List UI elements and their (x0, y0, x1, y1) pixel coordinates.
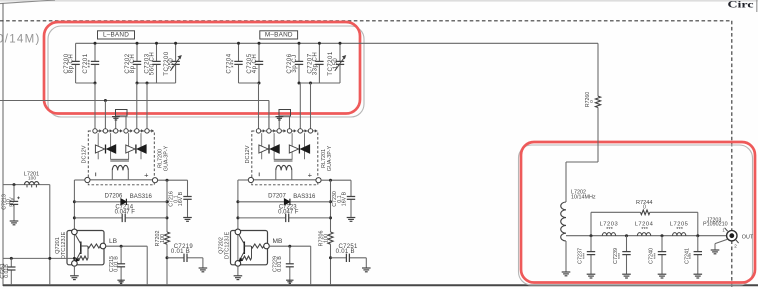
svg-text:+: + (308, 170, 313, 179)
svg-text:OUT: OUT (742, 234, 754, 240)
svg-text:D7207: D7207 (268, 193, 286, 199)
svg-text:8p CH: 8p CH (68, 54, 75, 74)
svg-text:0.01 B: 0.01 B (114, 256, 120, 272)
svg-text:M–BAND: M–BAND (265, 32, 293, 39)
svg-text:100: 100 (323, 234, 329, 243)
svg-text:33p CH: 33p CH (311, 52, 318, 75)
svg-text:DC12V: DC12V (81, 145, 87, 163)
svg-text:***: *** (641, 227, 649, 233)
svg-text:150: 150 (332, 58, 339, 70)
svg-text:0/14M): 0/14M) (0, 33, 41, 45)
svg-text:0: 0 (643, 204, 646, 210)
svg-text:4p CH: 4p CH (251, 54, 258, 74)
svg-text:8p CH: 8p CH (129, 54, 136, 74)
svg-text:0.047 F: 0.047 F (278, 210, 299, 216)
svg-text:100: 100 (28, 176, 36, 182)
svg-text:10/14MHz: 10/14MHz (571, 195, 596, 201)
svg-text:2: 2 (734, 243, 737, 248)
svg-text:MB: MB (273, 238, 283, 245)
svg-text:***: *** (676, 227, 684, 233)
svg-text:0.047 F: 0.047 F (115, 210, 136, 216)
svg-text:***: *** (87, 59, 94, 68)
svg-text:DTC123JE: DTC123JE (225, 232, 231, 260)
svg-text:3p CJ: 3p CJ (291, 54, 298, 72)
svg-text:***: *** (606, 227, 614, 233)
svg-text:0.01B: 0.01B (4, 264, 10, 278)
svg-text:GUA-3P-Y: GUA-3P-Y (163, 145, 169, 171)
svg-text:100: 100 (160, 234, 166, 243)
svg-text:16V B: 16V B (178, 191, 184, 206)
svg-text:LB: LB (109, 238, 118, 245)
svg-text:250: 250 (168, 58, 175, 70)
svg-text:0: 0 (589, 100, 595, 103)
svg-text:DC12V: DC12V (245, 145, 251, 163)
svg-text:560 CH: 560 CH (148, 52, 155, 75)
svg-text:***: *** (582, 252, 588, 259)
svg-text:***: *** (618, 252, 624, 259)
svg-text:***: *** (230, 59, 237, 68)
svg-text:BAS316: BAS316 (293, 194, 316, 200)
svg-text:R7260: R7260 (585, 92, 591, 107)
svg-text:16V B: 16V B (342, 191, 348, 206)
svg-text:0.01 B: 0.01 B (277, 256, 283, 272)
svg-text:+: + (144, 170, 149, 179)
svg-text:0.01 B: 0.01 B (336, 249, 355, 255)
svg-text:GUA-3P-Y: GUA-3P-Y (327, 145, 333, 171)
svg-text:Circ: Circ (728, 0, 755, 11)
svg-text:***: *** (689, 252, 695, 259)
svg-text:L–BAND: L–BAND (103, 32, 129, 39)
svg-text:50V: 50V (10, 197, 16, 207)
svg-text:BAS316: BAS316 (130, 194, 153, 200)
svg-text:***: *** (653, 252, 659, 259)
svg-text:DTC123JE: DTC123JE (61, 232, 67, 260)
svg-text:D7206: D7206 (105, 193, 123, 199)
